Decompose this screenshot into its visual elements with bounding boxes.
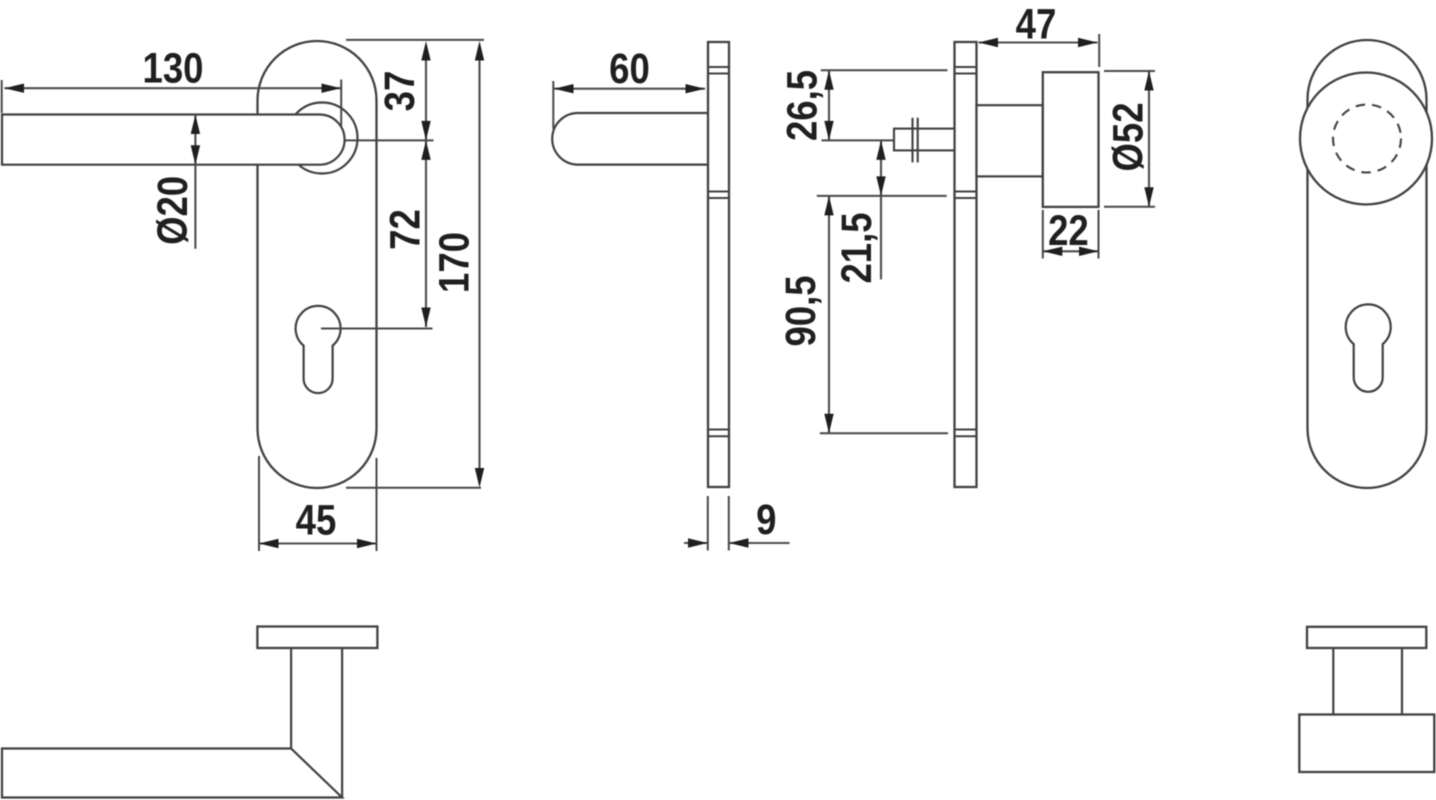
svg-text:9: 9 bbox=[756, 496, 776, 543]
dim 47 line bbox=[979, 41, 1098, 43]
svg-text:22: 22 bbox=[1048, 207, 1089, 254]
dim 37 arrowheads bbox=[421, 41, 430, 327]
dim 90,5 line bbox=[828, 196, 830, 433]
top extension line bbox=[346, 39, 484, 41]
svg-text:21,5: 21,5 bbox=[833, 212, 880, 283]
knob neck bbox=[977, 105, 1043, 176]
dim 9 arrowheads bbox=[688, 538, 749, 547]
knob neck lines bbox=[1333, 648, 1402, 715]
dim 60 arrowheads bbox=[554, 84, 705, 93]
dim 9 right arrow tail bbox=[729, 542, 790, 544]
dim 21,5 arrowheads bbox=[876, 140, 885, 196]
dim 22 extension lines bbox=[1043, 210, 1099, 259]
svg-text:37: 37 bbox=[376, 71, 423, 112]
dim 26,5 line bbox=[828, 70, 830, 140]
dim Ø52 extension lines bbox=[1104, 71, 1155, 207]
backplate (short plate) outline bbox=[258, 41, 377, 488]
dim Ø20 line bbox=[194, 115, 196, 249]
dim 47 arrowheads bbox=[979, 38, 1098, 47]
grip bar bottom view bbox=[2, 749, 342, 798]
dim 26,5 arrowheads bbox=[824, 70, 833, 140]
knob head bottom view bbox=[1299, 715, 1434, 773]
grip side profile bbox=[552, 113, 707, 165]
backplate outline bbox=[1308, 40, 1427, 488]
dim 60 line bbox=[554, 88, 705, 90]
dim 45 line bbox=[259, 542, 377, 544]
spindle shaft bbox=[894, 129, 955, 151]
handle hub collar circle bbox=[287, 103, 358, 174]
lever grip bar with round end cap bbox=[2, 115, 345, 165]
dim 130 extension tick right bbox=[340, 80, 342, 129]
cylinder centre reference line bbox=[321, 328, 433, 330]
dim 130 arrowheads bbox=[5, 84, 342, 93]
spindle flange lines bbox=[913, 118, 918, 163]
svg-text:72: 72 bbox=[382, 209, 429, 250]
knob head side bbox=[1043, 72, 1099, 207]
plate bottom view bbox=[257, 627, 377, 649]
svg-text:45: 45 bbox=[296, 497, 337, 544]
dim 9 extension lines bbox=[708, 496, 729, 551]
svg-text:130: 130 bbox=[143, 45, 204, 92]
dim 47 extension right bbox=[1098, 34, 1100, 67]
dim 170 arrowheads bbox=[475, 41, 484, 488]
reference line: spindle axis bbox=[822, 139, 895, 141]
reference line: bottom seam level bbox=[820, 432, 948, 434]
dim 9 left arrow with tail bbox=[684, 542, 708, 544]
dim 130 extension tick left bbox=[1, 80, 3, 113]
plate seam lines middle pair bbox=[955, 192, 977, 199]
handle neck lines bbox=[291, 648, 342, 798]
svg-text:90,5: 90,5 bbox=[777, 275, 824, 346]
svg-text:Ø20: Ø20 bbox=[149, 176, 196, 245]
euro profile cylinder hole bbox=[296, 306, 341, 393]
dim 21,5 line with tail bbox=[880, 140, 882, 279]
svg-text:170: 170 bbox=[431, 232, 478, 293]
plate seam lines top pair bbox=[708, 67, 729, 74]
euro profile cylinder hole bbox=[1346, 304, 1391, 391]
plate bottom view bbox=[1307, 627, 1426, 648]
dim 22 arrowheads bbox=[1043, 247, 1099, 256]
reference line: middle seam level bbox=[817, 195, 947, 197]
knob head circle bbox=[1300, 73, 1432, 205]
dim 60 extension left bbox=[552, 81, 554, 129]
plate seam lines middle pair bbox=[708, 192, 729, 199]
dim Ø52 line bbox=[1148, 71, 1150, 207]
plate seam lines top pair bbox=[955, 67, 977, 74]
plate seam lines bottom pair bbox=[708, 430, 729, 437]
dim 22 line bbox=[1043, 250, 1099, 252]
plate seam lines bottom pair bbox=[955, 430, 977, 437]
dim 37/72 vertical line bbox=[425, 45, 427, 327]
knob neck dashed circle bbox=[1333, 105, 1401, 173]
svg-text:47: 47 bbox=[1016, 1, 1057, 48]
dim Ø20 arrowheads bbox=[191, 115, 200, 165]
dim 90,5 arrowheads bbox=[824, 196, 833, 433]
plate side profile bbox=[708, 42, 729, 487]
svg-text:26,5: 26,5 bbox=[779, 70, 826, 141]
dim 170 line bbox=[478, 45, 480, 484]
dim 130 line bbox=[5, 87, 342, 89]
dim Ø52 arrowheads bbox=[1144, 71, 1153, 207]
bottom extension line bbox=[346, 487, 481, 489]
hub centre reference line bbox=[345, 139, 434, 141]
svg-text:60: 60 bbox=[609, 45, 650, 92]
reference line: plate top seam level bbox=[821, 69, 948, 71]
plate side profile bbox=[955, 42, 977, 487]
dim 45 extension lines bbox=[259, 456, 377, 551]
svg-text:Ø52: Ø52 bbox=[1105, 102, 1152, 171]
dim 45 arrowheads bbox=[259, 539, 377, 548]
